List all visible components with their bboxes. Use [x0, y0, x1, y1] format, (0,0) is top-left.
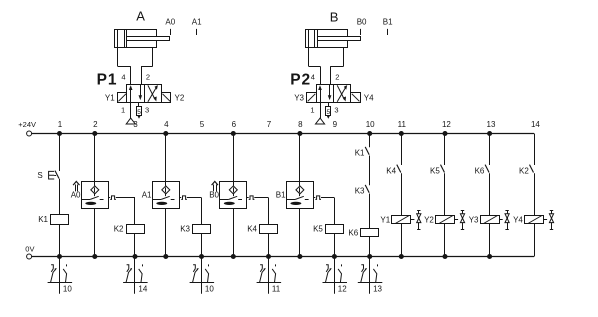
svg-text:A0: A0 — [71, 191, 81, 200]
svg-text:B: B — [330, 10, 339, 25]
svg-text:+24V: +24V — [18, 120, 36, 129]
svg-text:3: 3 — [133, 120, 138, 129]
svg-text:3: 3 — [334, 106, 338, 115]
svg-text:A1: A1 — [192, 17, 202, 26]
svg-text:13: 13 — [487, 120, 496, 129]
svg-text:Y1: Y1 — [105, 94, 115, 103]
svg-text:B1: B1 — [383, 17, 393, 26]
svg-text:B1: B1 — [276, 191, 286, 200]
svg-text:K2: K2 — [519, 166, 529, 175]
svg-text:K1: K1 — [355, 149, 365, 158]
svg-text:Y3: Y3 — [294, 94, 304, 103]
svg-text:B0: B0 — [357, 17, 367, 26]
svg-text:S: S — [37, 171, 42, 180]
svg-text:8: 8 — [298, 120, 303, 129]
svg-text:5: 5 — [137, 109, 141, 116]
svg-text:4: 4 — [164, 120, 169, 129]
svg-text:P2: P2 — [290, 71, 311, 88]
svg-text:14: 14 — [531, 120, 540, 129]
svg-text:K5: K5 — [430, 166, 440, 175]
svg-text:Y2: Y2 — [175, 94, 185, 103]
svg-text:13: 13 — [373, 285, 382, 294]
svg-text:K1: K1 — [38, 215, 48, 224]
svg-text:4: 4 — [311, 73, 315, 82]
svg-text:Y3: Y3 — [469, 215, 479, 224]
svg-text:9: 9 — [333, 120, 338, 129]
svg-text:K4: K4 — [247, 225, 257, 234]
svg-text:Y4: Y4 — [513, 215, 523, 224]
svg-text:Y1: Y1 — [380, 215, 390, 224]
svg-text:A1: A1 — [142, 191, 152, 200]
svg-text:K3: K3 — [355, 187, 365, 196]
svg-text:K2: K2 — [114, 225, 124, 234]
svg-text:10: 10 — [366, 120, 375, 129]
svg-text:11: 11 — [272, 285, 281, 294]
svg-text:2: 2 — [146, 73, 150, 82]
svg-text:7: 7 — [267, 120, 272, 129]
svg-text:B0: B0 — [209, 191, 219, 200]
svg-text:2: 2 — [93, 120, 98, 129]
svg-text:P1: P1 — [97, 71, 118, 88]
svg-text:10: 10 — [205, 285, 214, 294]
svg-text:12: 12 — [442, 120, 451, 129]
svg-text:Y4: Y4 — [364, 94, 374, 103]
svg-text:A0: A0 — [165, 17, 175, 26]
svg-text:4: 4 — [121, 73, 125, 82]
svg-text:6: 6 — [232, 120, 237, 129]
svg-text:0V: 0V — [25, 245, 34, 254]
svg-text:10: 10 — [63, 285, 72, 294]
svg-text:1: 1 — [58, 120, 63, 129]
svg-text:14: 14 — [138, 285, 147, 294]
svg-text:5: 5 — [200, 120, 205, 129]
svg-text:1: 1 — [121, 106, 125, 115]
svg-text:1: 1 — [310, 106, 314, 115]
svg-text:K6: K6 — [475, 166, 485, 175]
svg-text:3: 3 — [145, 106, 149, 115]
svg-text:Y2: Y2 — [424, 215, 434, 224]
svg-text:K3: K3 — [180, 225, 190, 234]
svg-text:2: 2 — [335, 73, 339, 82]
svg-text:K4: K4 — [386, 166, 396, 175]
svg-text:K6: K6 — [348, 229, 358, 238]
svg-text:12: 12 — [338, 285, 347, 294]
svg-text:A: A — [136, 9, 145, 24]
svg-text:K5: K5 — [313, 225, 323, 234]
svg-text:5: 5 — [326, 109, 330, 116]
svg-text:11: 11 — [398, 120, 407, 129]
